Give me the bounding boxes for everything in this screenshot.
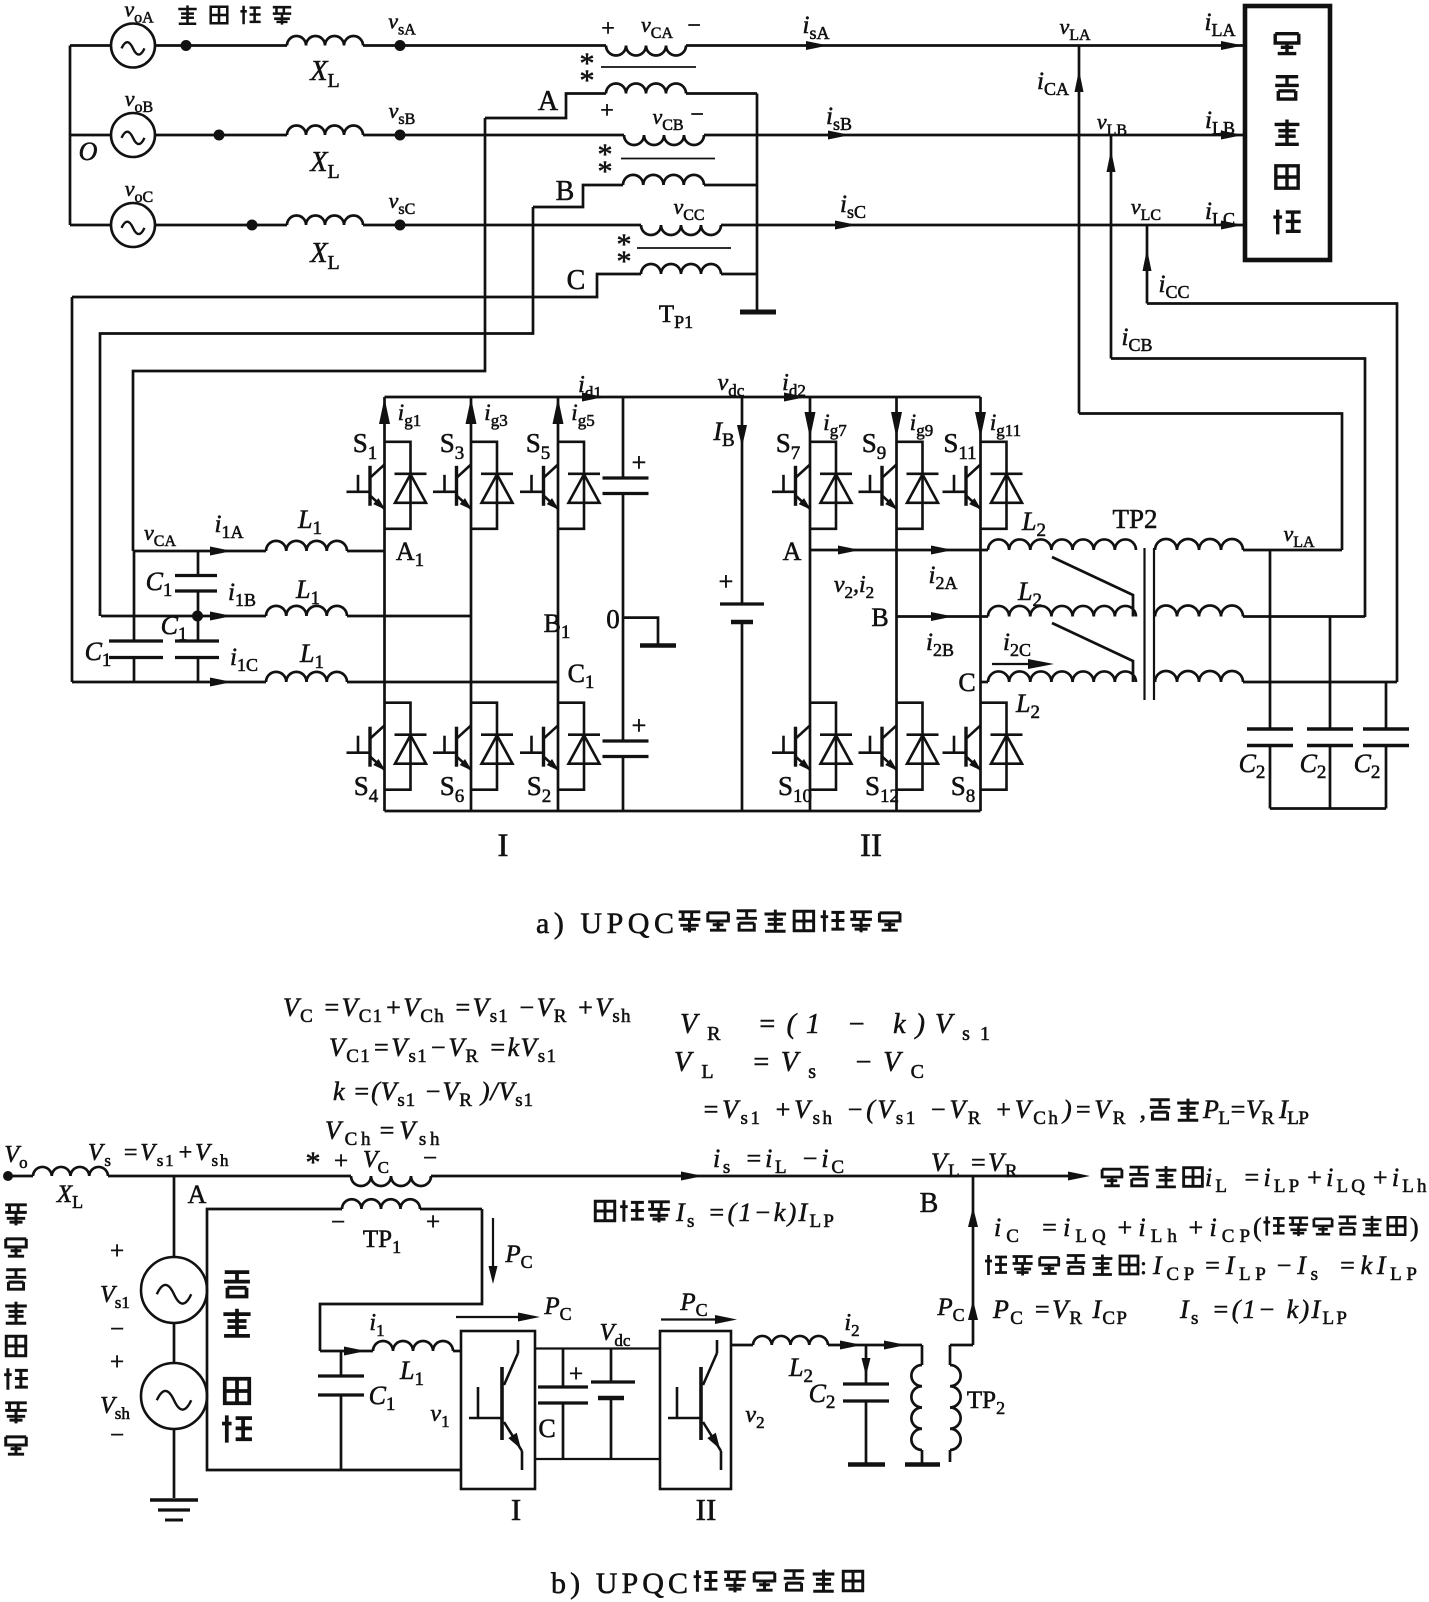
svg-text:(: ( — [1253, 1213, 1262, 1242]
svg-text:+: + — [334, 1148, 348, 1175]
svg-text:): ) — [1410, 1213, 1419, 1242]
svg-text:VC​ =VC1​+VCh​ =Vs1​ −VR​ +Vsh: VC​ =VC1​+VCh​ =Vs1​ −VR​ +Vsh​ — [283, 993, 631, 1027]
svg-text:−: − — [423, 1145, 437, 1172]
svg-text:−: − — [110, 1316, 124, 1343]
svg-text:−: − — [110, 1422, 124, 1449]
svg-text:+: + — [600, 98, 614, 124]
svg-text:*: * — [580, 64, 595, 97]
svg-text:B: B — [556, 176, 575, 207]
svg-text:−: − — [690, 102, 704, 128]
svg-text:II: II — [860, 828, 882, 864]
svg-text:II: II — [696, 1492, 717, 1527]
svg-text:I: I — [511, 1492, 521, 1527]
svg-text:TP2: TP2 — [1112, 504, 1157, 534]
svg-text:+: + — [110, 1349, 124, 1376]
svg-text:C: C — [958, 668, 975, 697]
svg-text:+: + — [426, 1209, 440, 1236]
svg-text:+: + — [601, 16, 615, 42]
svg-text:O: O — [79, 137, 98, 166]
svg-text:*: * — [306, 1146, 321, 1179]
svg-text::: : — [1140, 1253, 1147, 1280]
svg-text:+: + — [632, 448, 647, 477]
svg-text:k =(Vs1​ −VR​ )/Vs1​: k =(Vs1​ −VR​ )/Vs1​ — [333, 1077, 533, 1111]
svg-text:A: A — [188, 1180, 207, 1209]
svg-text:B: B — [871, 603, 888, 632]
svg-text:B: B — [920, 1188, 939, 1219]
svg-text:−: − — [687, 13, 701, 39]
svg-text:=Vs1​ +Vsh​ −(Vs1​ −VR​ +VCh​): =Vs1​ +Vsh​ −(Vs1​ −VR​ +VCh​)=VR​ , — [702, 1095, 1146, 1129]
svg-text:0: 0 — [606, 604, 620, 634]
svg-text:*: * — [598, 155, 613, 188]
svg-text:C: C — [567, 265, 586, 296]
svg-text:C: C — [538, 1414, 555, 1443]
svg-text:+: + — [632, 711, 647, 740]
svg-text:+: + — [719, 567, 734, 596]
svg-text:+: + — [569, 1361, 583, 1388]
svg-text:iL​ =iLP​+iLQ​+iLh​: iL​ =iLP​+iLQ​+iLh​ — [1205, 1163, 1427, 1197]
svg-text:−: − — [331, 1209, 345, 1236]
svg-text:A: A — [783, 537, 802, 566]
svg-text:+: + — [110, 1238, 124, 1265]
svg-text:I: I — [498, 828, 509, 864]
svg-text:A: A — [538, 86, 559, 117]
svg-text:iC​ =iLQ​+iLh​+iCP​: iC​ =iLQ​+iLh​+iCP​ — [994, 1213, 1250, 1247]
